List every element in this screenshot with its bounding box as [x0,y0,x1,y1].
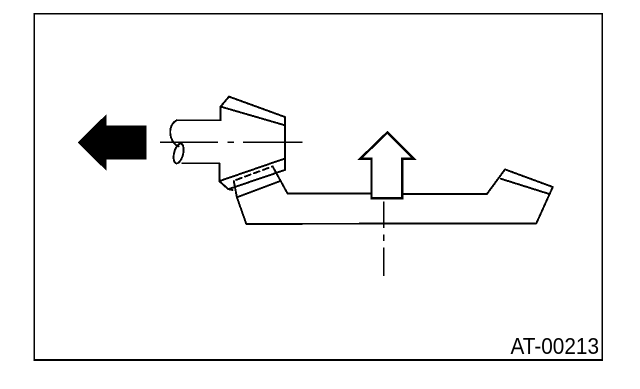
skirt lower edge T2 [230,170,285,189]
direction arrow (filled, pointing left) [78,114,147,170]
border frame [34,14,602,360]
steep top-left edge [273,166,288,193]
inner slant T3 [237,181,281,197]
bracket (lever) [234,166,553,224]
shaft top edge [177,119,221,121]
inner top line [221,107,285,126]
break curve [170,120,178,146]
step down [218,163,220,181]
left edge [234,181,247,224]
chamfer + top edge [221,97,285,117]
top edge left part [288,193,372,195]
ramp [487,169,505,194]
shaft bottom edge [182,162,219,164]
bottom edge + right edge [246,187,553,224]
right edge [284,117,286,170]
right band outer [505,169,553,187]
hidden edge (dashed) [236,166,272,180]
horizontal centerline (dash-dot) [160,141,303,143]
break loop [172,143,186,165]
right band inner [501,179,549,194]
shaft with break symbol [170,120,220,164]
svg-text:AT-00213: AT-00213 [511,333,600,359]
skirt tip [219,181,232,190]
vertical centerline (dash-dot) [383,202,385,276]
top edge right part [402,193,487,195]
bottom edge T1 [221,159,286,181]
step up [220,107,222,121]
up arrow (outlined) [360,132,414,198]
cone (gear) body [219,97,285,190]
